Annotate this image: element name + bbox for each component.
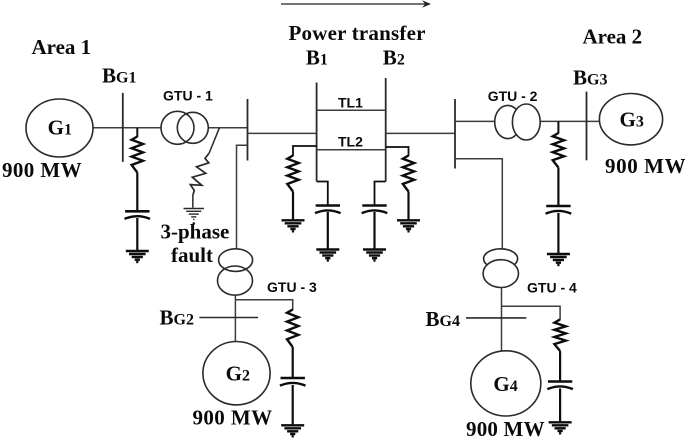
svg-text:GTU - 4: GTU - 4 (527, 279, 577, 295)
wire: C1 to ground lead (136, 218, 138, 251)
transmission line TL1 (317, 109, 386, 111)
wire: GTU-3 to generator G2 (234, 295, 236, 342)
svg-text:fault: fault (171, 243, 213, 267)
svg-text:900 MW: 900 MW (466, 417, 545, 441)
generator G3 (599, 94, 662, 145)
svg-text:900 MW: 900 MW (605, 154, 685, 178)
bus BG3 (586, 92, 588, 161)
resistor R6 (554, 319, 565, 351)
ground: below C5 (281, 424, 304, 426)
wire: fault to ground (192, 195, 194, 208)
capacitor C6 (548, 380, 572, 383)
transformer GTU-1 (161, 111, 208, 144)
bus BG2 (199, 317, 258, 319)
wire: C3 L-lead from bottom of bus B2 (375, 182, 386, 206)
wire: bus A to GTU-3 (L-shape) (237, 145, 248, 249)
bus B1 (316, 83, 318, 182)
wire: R2 stub from bus B1 (293, 146, 317, 156)
wire: R4 to C4 lead (557, 168, 559, 206)
wire: R6 to C6 lead (559, 351, 561, 381)
wire: bus B2 to bus B trunk (386, 132, 455, 134)
generator G1 (26, 99, 93, 157)
wire: R3 to ground lead (407, 192, 409, 221)
wire: C6 to ground lead (559, 389, 561, 422)
svg-text:Area 2: Area 2 (583, 25, 643, 49)
capacitor C1 (125, 210, 149, 213)
svg-text:3-phase: 3-phase (161, 219, 230, 243)
transformer GTU-3 (218, 249, 253, 295)
bus B2 (385, 78, 387, 182)
ground: below C4 (547, 253, 570, 255)
wire: R1 to C1 lead (136, 173, 138, 211)
svg-text:Area 1: Area 1 (32, 35, 92, 59)
wire: GTU-4 to generator G4 (501, 288, 503, 353)
resistor R2 (287, 156, 298, 192)
svg-text:TL2: TL2 (338, 134, 363, 150)
svg-text:GTU - 3: GTU - 3 (267, 279, 317, 295)
wire: C2 to ground lead (327, 212, 329, 249)
svg-text:900 MW: 900 MW (193, 406, 273, 430)
resistor R1 (132, 137, 143, 173)
bus A (Area 1 HV bus) (247, 99, 249, 161)
fault impedance (slanted zigzag) (190, 153, 209, 195)
wire: C3 to ground lead (373, 212, 375, 249)
ground: below C2 (316, 248, 339, 250)
ground: below R2 (282, 219, 305, 221)
generator G4 (471, 351, 541, 416)
wire: bus A to bus B1 trunk (248, 132, 317, 134)
wire: C2 L-lead from bottom of bus B1 (317, 182, 328, 206)
resistor R3 (403, 156, 414, 192)
transformer GTU-4 (483, 249, 518, 288)
generator G2 (203, 342, 270, 405)
svg-text:900 MW: 900 MW (2, 158, 82, 182)
bus B (Area 2 HV bus) (454, 99, 456, 169)
fault ground tip dot (192, 222, 195, 225)
capacitor C3 (362, 204, 386, 207)
resistor R4 (553, 133, 564, 168)
wire: generator G1 to bus A trunk (92, 127, 248, 129)
wire: R2 to ground lead (292, 192, 294, 221)
wire: C5 to ground lead (292, 385, 294, 425)
svg-text:Power transfer: Power transfer (289, 21, 426, 45)
wire: C4 to ground lead (557, 213, 559, 254)
wire: GTU-3 to R5 branch (235, 300, 292, 310)
capacitor C2 (316, 204, 340, 207)
capacitor C5 (281, 377, 305, 380)
label: 3-phase fault (161, 219, 230, 266)
power transfer direction arrow (281, 0, 431, 8)
wire: GTU-4 to R6 branch (502, 306, 561, 320)
ground: below R3 (397, 219, 420, 221)
resistor R5 (287, 310, 298, 348)
ground: below C3 (363, 248, 386, 250)
svg-text:GTU - 1: GTU - 1 (163, 88, 213, 104)
ground: below C1 (126, 250, 149, 252)
bus BG4 (466, 317, 526, 319)
transformer GTU-2 (495, 104, 540, 140)
wire: bus B to GTU-4 (L-shape) (455, 159, 502, 250)
wire: bus B to generator G3 trunk (455, 120, 600, 122)
wire: R1 top lead (136, 128, 138, 137)
wire: R4 top lead (557, 121, 559, 133)
wire: fault branch diagonal (209, 128, 219, 153)
svg-text:TL1: TL1 (338, 95, 363, 111)
ground: below C6 (549, 421, 572, 423)
wire: R5 to C5 lead (292, 347, 294, 377)
bus BG1 (122, 93, 124, 162)
capacitor C4 (546, 205, 570, 208)
svg-text:GTU - 2: GTU - 2 (488, 88, 538, 104)
wire: R3 stub from bus B2 (386, 147, 409, 156)
ground: 3-phase fault (thin style) (184, 209, 205, 220)
transmission line TL2 (317, 149, 386, 151)
